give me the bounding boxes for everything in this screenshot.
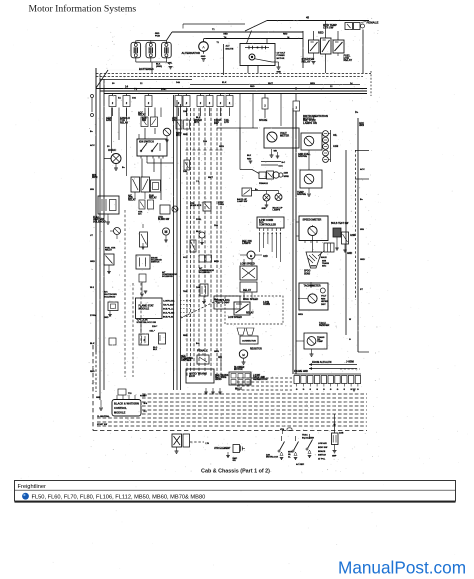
svg-text:WHT: WHT bbox=[268, 83, 274, 85]
svg-text:20: 20 bbox=[107, 146, 110, 148]
gnd left of module bbox=[100, 400, 102, 407]
speedometer U6 bbox=[299, 216, 328, 241]
svg-text:2: 2 bbox=[186, 103, 188, 105]
svg-text:ECU: ECU bbox=[189, 374, 195, 378]
label FEMALE top bbox=[361, 22, 366, 23]
switch SW-B bbox=[295, 436, 297, 441]
svg-text:14A: 14A bbox=[176, 81, 180, 84]
svg-text:G: G bbox=[323, 389, 325, 391]
fuse F3 bbox=[145, 96, 152, 107]
svg-text:HIGH SPEED: HIGH SPEED bbox=[243, 298, 258, 301]
svg-text:2YGM: 2YGM bbox=[90, 315, 96, 317]
svg-text:SPARE: SPARE bbox=[259, 119, 268, 122]
svg-text:CONNECTOR: CONNECTOR bbox=[242, 341, 256, 343]
fuse F9 bbox=[226, 96, 233, 107]
svg-text:SENDER: SENDER bbox=[319, 324, 329, 327]
connector male box bbox=[324, 243, 334, 252]
svg-text:SCB-*6--3+: SCB-*6--3+ bbox=[163, 309, 175, 311]
svg-text:ACC: ACC bbox=[90, 144, 95, 147]
table freightliner bbox=[15, 481, 456, 502]
switch SW-A bbox=[281, 436, 283, 441]
relay K2 starter aux bbox=[321, 38, 332, 54]
ground fuse bottom bbox=[227, 452, 229, 455]
ground relay K1 bbox=[312, 61, 316, 63]
inline connector bundle ticks bbox=[185, 149, 188, 151]
svg-text:G: G bbox=[337, 389, 339, 391]
relay accessory feed bbox=[141, 117, 148, 127]
svg-text:TEMP: TEMP bbox=[317, 341, 324, 343]
svg-text:RED: RED bbox=[247, 158, 252, 160]
wire L to connector bbox=[239, 128, 241, 170]
svg-text:LPS: LPS bbox=[224, 121, 229, 124]
svg-text:5: 5 bbox=[276, 233, 278, 235]
high speed relay box bbox=[225, 296, 283, 324]
fuse F7 bbox=[206, 96, 213, 107]
svg-text:HTR ELEMENT: HTR ELEMENT bbox=[214, 448, 231, 450]
fuel heater solenoid bbox=[98, 196, 119, 214]
svg-text:C2D: C2D bbox=[263, 256, 268, 258]
svg-text:2: 2 bbox=[220, 103, 222, 105]
small lamp circle bbox=[172, 206, 178, 212]
svg-text:CONTROL: CONTROL bbox=[114, 406, 127, 410]
svg-text:2: 2 bbox=[209, 103, 211, 105]
svg-text:CONN: CONN bbox=[263, 304, 270, 306]
wire vertical x223.5 bbox=[223, 44, 225, 75]
svg-text:BRAKE: BRAKE bbox=[318, 450, 326, 453]
wire drop x303 bbox=[302, 31, 304, 68]
svg-text:12: 12 bbox=[330, 86, 333, 88]
svg-text:2: 2 bbox=[264, 105, 266, 107]
svg-text:BLU: BLU bbox=[196, 231, 201, 233]
svg-text:GNL: GNL bbox=[168, 63, 173, 65]
svg-text:CONTROLLER: CONTROLLER bbox=[259, 223, 276, 226]
svg-text:SPEEDOMETER: SPEEDOMETER bbox=[303, 219, 322, 222]
svg-text:BLK: BLK bbox=[90, 343, 95, 345]
svg-text:SWITCH: SWITCH bbox=[318, 455, 326, 457]
wiper motor boxes bbox=[176, 120, 182, 129]
svg-text:M: M bbox=[165, 230, 168, 234]
svg-text:SENS: SENS bbox=[304, 273, 311, 275]
svg-text:GRN: GRN bbox=[298, 314, 303, 316]
wire relay feeds bbox=[313, 31, 315, 40]
svg-text:FROM ALT/ALTN: FROM ALT/ALTN bbox=[312, 361, 332, 364]
power distribution module U1 bbox=[240, 44, 275, 66]
svg-text:FEMALE: FEMALE bbox=[367, 21, 379, 25]
svg-text:GND: GND bbox=[104, 317, 109, 319]
battery B2 bbox=[146, 42, 156, 58]
connector row pin 1 bbox=[294, 376, 299, 384]
wire top feed bbox=[267, 20, 369, 22]
bus dashed upper bbox=[96, 73, 371, 75]
svg-text:ALTERNATOR: ALTERNATOR bbox=[182, 51, 201, 55]
svg-text:RELAY: RELAY bbox=[128, 199, 136, 202]
svg-text:RELAY: RELAY bbox=[344, 58, 353, 62]
svg-text:726-*1-344*: 726-*1-344* bbox=[163, 304, 174, 307]
svg-text:FEMALE: FEMALE bbox=[259, 182, 268, 185]
svg-text:18A: 18A bbox=[214, 224, 218, 227]
battery B1 bbox=[131, 42, 141, 58]
wire left spine 1 bbox=[95, 68, 97, 352]
svg-text:B+: B+ bbox=[360, 199, 364, 201]
connector row pin 3 bbox=[308, 376, 313, 384]
connector row pin 4 bbox=[314, 376, 319, 384]
svg-text:G: G bbox=[310, 389, 312, 391]
svg-text:FEMALE: FEMALE bbox=[197, 349, 208, 353]
wire back-up lamp runs bbox=[345, 150, 347, 335]
svg-text:RED: RED bbox=[183, 134, 188, 136]
svg-text:FRAME GND: FRAME GND bbox=[294, 370, 308, 373]
svg-text:G: G bbox=[344, 389, 346, 391]
left edge arrows bbox=[91, 98, 93, 112]
svg-text:SCA-*6-343: SCA-*6-343 bbox=[163, 312, 175, 315]
svg-text:RELAY: RELAY bbox=[149, 197, 157, 200]
heater element bbox=[172, 434, 182, 447]
band top small component bbox=[118, 389, 126, 395]
bulb test switch bbox=[333, 228, 341, 237]
svg-text:Freightliner: Freightliner bbox=[18, 484, 47, 490]
svg-text:Y-2: Y-2 bbox=[196, 181, 200, 183]
ATA resistor bottom bbox=[332, 433, 339, 445]
svg-text:2: 2 bbox=[263, 233, 265, 235]
svg-text:B+: B+ bbox=[122, 167, 126, 169]
wire firewall stub bbox=[370, 71, 372, 96]
svg-text:WB: WB bbox=[274, 151, 278, 153]
svg-text:M: M bbox=[242, 353, 245, 357]
svg-text:12: 12 bbox=[140, 83, 143, 85]
spine corner bbox=[358, 351, 369, 353]
back-up lamp L2 bbox=[275, 194, 282, 201]
svg-text:16A: 16A bbox=[196, 286, 200, 289]
right spine x358 bbox=[357, 118, 359, 352]
svg-text:VOLT: VOLT bbox=[321, 296, 327, 298]
svg-text:SOLENOID: SOLENOID bbox=[162, 276, 173, 278]
connector row pin 5 bbox=[321, 376, 326, 384]
inline connector A2M bbox=[259, 172, 266, 179]
wire heater dash bbox=[190, 441, 204, 443]
svg-text:BLK: BLK bbox=[222, 82, 227, 84]
connector row pin 2 bbox=[301, 376, 306, 384]
svg-text:FUEL: FUEL bbox=[196, 219, 202, 221]
svg-text:WPR: WPR bbox=[92, 177, 98, 179]
connector row pin 8 bbox=[342, 376, 347, 384]
svg-text:CTR SW: CTR SW bbox=[323, 25, 334, 29]
cigar lighter bbox=[114, 228, 121, 235]
svg-text:6: 6 bbox=[280, 233, 282, 235]
wire ignition drops bbox=[141, 159, 143, 178]
component D5 bbox=[190, 240, 196, 252]
svg-text:AT POL: AT POL bbox=[318, 458, 326, 461]
wire battery grounds bbox=[135, 60, 137, 62]
svg-text:841-*: 841-* bbox=[150, 330, 155, 333]
svg-text:BULB TEST SW: BULB TEST SW bbox=[331, 223, 349, 225]
svg-text:SWITCH: SWITCH bbox=[151, 261, 160, 263]
back-up lamp L1 bbox=[263, 194, 270, 201]
svg-text:GNP: GNP bbox=[332, 456, 337, 458]
svg-text:SOLENOID: SOLENOID bbox=[199, 272, 210, 274]
air label arrow bbox=[220, 360, 222, 370]
svg-text:DIST: DIST bbox=[321, 304, 326, 306]
fuse F6 bbox=[197, 96, 204, 107]
dashed diagonal bbox=[181, 300, 218, 318]
relay cluster K4 K5 bbox=[131, 177, 140, 192]
svg-text:B+: B+ bbox=[90, 131, 94, 133]
svg-text:SEC: SEC bbox=[322, 266, 327, 268]
fuse F1 bbox=[109, 96, 116, 107]
alternator A1 bbox=[199, 42, 209, 52]
svg-text:20A: 20A bbox=[214, 122, 218, 125]
auto trans ecu bbox=[186, 369, 214, 383]
svg-text:RESISTOR: RESISTOR bbox=[250, 349, 262, 351]
svg-text:228-*: 228-* bbox=[152, 326, 157, 328]
svg-text:AC REF!: AC REF! bbox=[296, 463, 305, 466]
svg-text:2: 2 bbox=[178, 103, 180, 105]
connector heater bbox=[237, 328, 245, 335]
fuse F11 bbox=[293, 101, 300, 111]
speedo pins bbox=[304, 241, 306, 244]
svg-text:GND: GND bbox=[347, 253, 352, 255]
wire battery to alternator bus bbox=[166, 32, 172, 41]
flame area small fuse boxes bbox=[139, 334, 149, 345]
svg-text:GENERATOR: GENERATOR bbox=[253, 378, 268, 381]
stub right y150 bbox=[355, 150, 369, 152]
svg-text:4: 4 bbox=[271, 232, 273, 235]
from-alt arrows bbox=[309, 364, 357, 366]
svg-text:LAMPS ON: LAMPS ON bbox=[303, 121, 317, 125]
fuse F5 bbox=[183, 96, 190, 107]
svg-text:W-4: W-4 bbox=[144, 402, 148, 405]
svg-text:START SW: START SW bbox=[97, 423, 107, 426]
temp gauge U4 bbox=[300, 170, 322, 188]
fuse inline bottom bbox=[233, 445, 240, 453]
svg-text:Cab & Chassis (Part 1 of 2): Cab & Chassis (Part 1 of 2) bbox=[201, 469, 270, 475]
table bullet bbox=[22, 493, 29, 500]
connector J1 water-temp bbox=[345, 23, 353, 30]
svg-text:2: 2 bbox=[112, 103, 114, 105]
dashed enclosure bottom bbox=[93, 430, 367, 432]
wire horn feed bbox=[104, 158, 111, 160]
svg-text:MOTOR: MOTOR bbox=[234, 369, 243, 371]
svg-text:G: G bbox=[349, 339, 351, 341]
switch SW-C bbox=[309, 434, 311, 439]
wire relay feeds right col bbox=[243, 259, 245, 266]
radio R1 bbox=[163, 128, 171, 136]
svg-text:2: 2 bbox=[126, 103, 128, 105]
acc small box bbox=[139, 274, 146, 282]
svg-text:ManualPost.com: ManualPost.com bbox=[338, 558, 466, 578]
magnetic solenoid switch bbox=[136, 255, 150, 269]
svg-text:A2M: A2M bbox=[350, 234, 355, 237]
dashed verticals flame area bbox=[124, 210, 126, 377]
svg-text:GND: GND bbox=[360, 259, 365, 261]
fuel gauge U3 bbox=[301, 133, 322, 150]
svg-text:16A: 16A bbox=[203, 140, 207, 143]
svg-text:REG: REG bbox=[321, 298, 326, 300]
wire lamps feed bbox=[252, 190, 279, 192]
trans temp sender bbox=[304, 333, 327, 349]
tachometer U7 bbox=[299, 283, 328, 310]
svg-text:Motor Information Systems: Motor Information Systems bbox=[29, 4, 137, 15]
svg-text:18A: 18A bbox=[183, 110, 187, 113]
control module box bbox=[112, 400, 141, 417]
junction main bus bbox=[295, 87, 297, 89]
ground switch S2 bbox=[142, 224, 144, 228]
svg-text:MALE: MALE bbox=[321, 256, 328, 259]
svg-text:RELAY: RELAY bbox=[243, 289, 251, 292]
svg-text:BLWR MTR: BLWR MTR bbox=[190, 205, 202, 207]
connector pins col bbox=[323, 131, 329, 137]
svg-text:20a: 20a bbox=[161, 87, 166, 91]
bus solid feeders bbox=[96, 88, 367, 90]
svg-text:M: M bbox=[250, 254, 253, 258]
svg-text:HRNS: HRNS bbox=[215, 379, 222, 381]
wire connector drop bbox=[362, 30, 364, 74]
svg-text:TRANS: TRANS bbox=[322, 262, 330, 265]
svg-text:WIRE: WIRE bbox=[284, 176, 290, 178]
wire module exit gnd bbox=[275, 61, 279, 63]
svg-text:1: 1 bbox=[259, 233, 261, 235]
band junction bbox=[333, 423, 335, 425]
svg-text:IGN: IGN bbox=[90, 189, 94, 191]
dashed band rows lower bbox=[97, 417, 367, 419]
svg-text:INDIC SW: INDIC SW bbox=[318, 447, 327, 449]
svg-text:J-HEMI: J-HEMI bbox=[346, 362, 354, 364]
svg-text:12 VOLT: 12 VOLT bbox=[277, 53, 286, 55]
svg-text:T1: T1 bbox=[134, 87, 138, 91]
svg-text:ASB: ASB bbox=[339, 432, 344, 435]
svg-text:GRN: GRN bbox=[219, 146, 224, 148]
svg-text:A2M: A2M bbox=[284, 172, 289, 175]
svg-text:LT6: LT6 bbox=[206, 443, 210, 445]
wire B-C stub bbox=[261, 161, 281, 163]
wire battery collector bbox=[136, 40, 167, 42]
relay K3 fuel heater bbox=[333, 40, 344, 53]
svg-text:GND: GND bbox=[96, 397, 101, 399]
wire cluster feed left bbox=[217, 127, 258, 129]
connector row pin 10 bbox=[355, 376, 360, 384]
svg-text:BRN: BRN bbox=[214, 261, 219, 263]
svg-text:FL50, FL60, FL70, FL80, FL106,: FL50, FL60, FL70, FL80, FL106, FL112, MB… bbox=[32, 495, 206, 501]
svg-text:A2M: A2M bbox=[333, 145, 338, 148]
svg-text:ST: ST bbox=[360, 289, 363, 291]
wire top second feed bbox=[183, 23, 245, 25]
svg-text:IGN: IGN bbox=[360, 229, 364, 231]
svg-text:14A: 14A bbox=[183, 170, 187, 173]
svg-text:BLK: BLK bbox=[247, 155, 252, 157]
wire controller drops bbox=[259, 234, 261, 252]
fuse F10 bbox=[262, 98, 268, 109]
svg-text:SPDO: SPDO bbox=[304, 271, 311, 273]
svg-text:EQUALIZER: EQUALIZER bbox=[302, 437, 315, 440]
frame ground connector row bbox=[294, 373, 361, 375]
dash stub above row bbox=[340, 368, 360, 370]
solenoid S3 bbox=[140, 232, 148, 247]
module top pins bbox=[116, 395, 118, 400]
svg-text:G: G bbox=[357, 389, 359, 391]
svg-text:14: 14 bbox=[125, 84, 129, 88]
stub right y179 bbox=[355, 178, 369, 180]
svg-text:10A: 10A bbox=[132, 97, 136, 100]
svg-text:T15: T15 bbox=[128, 393, 132, 395]
svg-text:RELAY: RELAY bbox=[120, 121, 128, 124]
heater blower switch bbox=[160, 205, 170, 214]
svg-text:T1: T1 bbox=[212, 29, 215, 31]
svg-text:T1: T1 bbox=[217, 42, 220, 44]
ground trio above band bbox=[205, 388, 207, 392]
svg-text:A/C: A/C bbox=[138, 212, 142, 215]
svg-text:2: 2 bbox=[148, 103, 150, 105]
svg-text:ACC: ACC bbox=[360, 168, 365, 171]
component D4 fuse lower bbox=[200, 284, 208, 296]
svg-text:LAMPS: LAMPS bbox=[242, 242, 251, 245]
wire top diagonal join bbox=[245, 21, 267, 32]
svg-text:C-0876-33A: C-0876-33A bbox=[163, 300, 175, 303]
svg-text:INSTRLOCK: INSTRLOCK bbox=[266, 456, 279, 458]
svg-text:MODULE: MODULE bbox=[139, 308, 150, 311]
svg-text:SOLENOID: SOLENOID bbox=[104, 296, 116, 298]
svg-text:HETER: HETER bbox=[321, 301, 328, 303]
relay K1 starter bbox=[309, 40, 320, 53]
wire drop x183 top bbox=[182, 24, 184, 29]
dashed band rows upper bbox=[142, 393, 367, 395]
svg-text:METER: METER bbox=[280, 133, 289, 137]
svg-text:RELAY: RELAY bbox=[246, 312, 254, 315]
svg-text:G: G bbox=[303, 389, 305, 391]
svg-text:45: 45 bbox=[306, 16, 310, 20]
svg-text:G: G bbox=[330, 389, 332, 391]
svg-text:BLWR SW: BLWR SW bbox=[158, 219, 170, 221]
back-up lamp switch bbox=[242, 188, 252, 196]
svg-text:FAN: FAN bbox=[106, 119, 111, 122]
svg-text:BCB-*6-34: BCB-*6-34 bbox=[163, 316, 174, 319]
svg-text:GRN: GRN bbox=[214, 351, 219, 353]
wire slant feed left bbox=[96, 70, 108, 88]
svg-text:RED: RED bbox=[250, 86, 255, 88]
svg-text:TACHOMETER: TACHOMETER bbox=[304, 284, 321, 287]
svg-text:OIL: OIL bbox=[333, 134, 338, 137]
svg-text:5A: 5A bbox=[118, 97, 121, 100]
horn H1 bbox=[111, 154, 121, 164]
svg-text:BLK: BLK bbox=[153, 349, 158, 351]
svg-text:TRAC: TRAC bbox=[302, 434, 308, 437]
wire 8-1C stub bbox=[261, 164, 278, 166]
left switch S2 bbox=[139, 200, 145, 209]
svg-text:LOW SPEED: LOW SPEED bbox=[228, 317, 242, 319]
svg-text:A: A bbox=[202, 46, 205, 50]
harness trunk solid bbox=[173, 95, 175, 390]
svg-text:2: 2 bbox=[200, 103, 202, 105]
fuse F2 bbox=[123, 96, 130, 107]
connector row pin 9 bbox=[348, 376, 353, 384]
svg-text:POWER: POWER bbox=[277, 55, 286, 57]
svg-text:G: G bbox=[316, 389, 318, 391]
ignition feed wires bbox=[160, 108, 162, 118]
svg-text:B-2: B-2 bbox=[144, 395, 148, 397]
svg-text:GRN: GRN bbox=[310, 83, 315, 85]
svg-text:GN: GN bbox=[233, 460, 237, 462]
connector row pin 7 bbox=[335, 376, 340, 384]
svg-text:AIR: AIR bbox=[218, 356, 222, 359]
svg-text:GAUGE: GAUGE bbox=[297, 193, 306, 196]
svg-text:R-1: R-1 bbox=[144, 411, 148, 413]
battery B3 bbox=[162, 42, 172, 58]
short dash row 4 bbox=[237, 389, 292, 391]
flame start module U8 bbox=[136, 298, 163, 319]
short dash rows bbox=[237, 377, 292, 379]
lamp circle mid bbox=[199, 232, 205, 238]
gnd above flame module bbox=[144, 290, 148, 292]
svg-text:EXCITE: EXCITE bbox=[226, 48, 234, 50]
svg-text:GND: GND bbox=[262, 208, 267, 210]
